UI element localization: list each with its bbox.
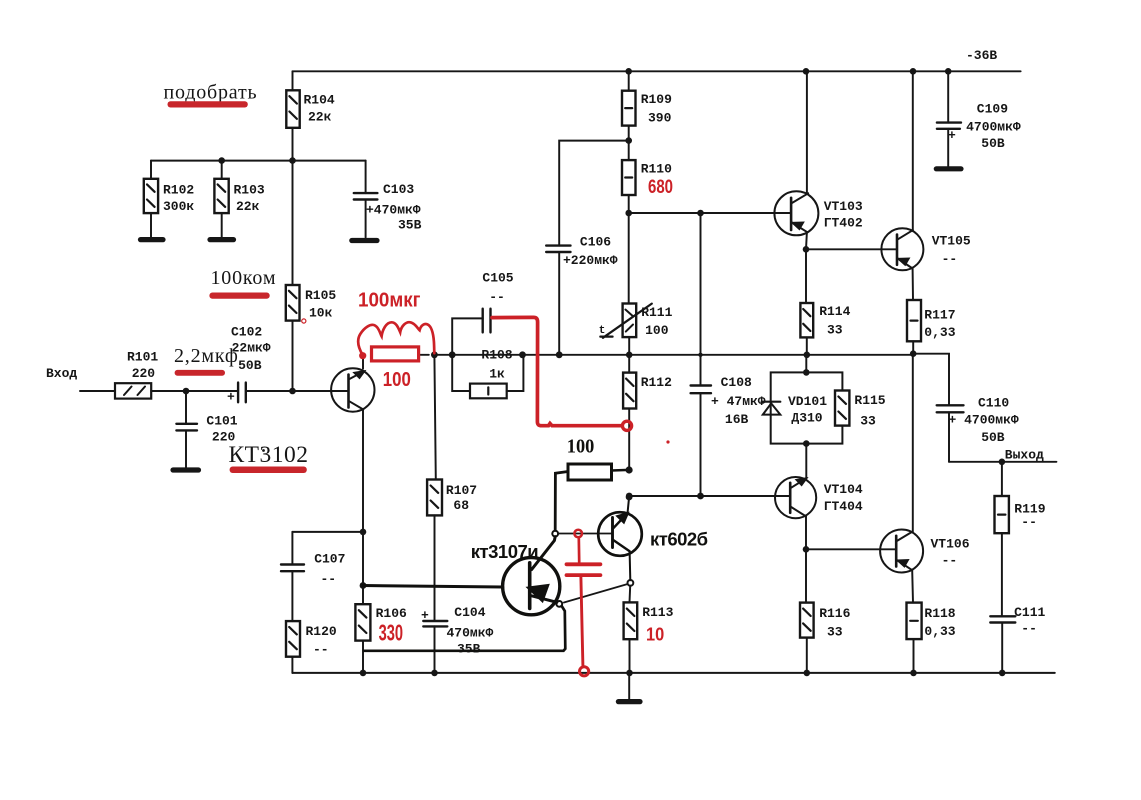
svg-text:390: 390	[648, 111, 672, 126]
svg-text:+220мкФ: +220мкФ	[563, 253, 618, 268]
svg-text:+ 47мкФ: + 47мкФ	[711, 394, 766, 409]
junction: 100-resistor right node	[626, 466, 633, 473]
resistor R106	[355, 604, 407, 673]
junction: C109 on rail	[945, 68, 952, 75]
annotation underline (подобрать)	[168, 101, 248, 107]
svg-text:R116: R116	[819, 606, 850, 621]
capacitor C107	[281, 532, 345, 621]
junction: VD101 box bottom	[803, 440, 810, 447]
svg-text:680: 680	[648, 177, 673, 198]
capacitor C104	[421, 605, 494, 673]
wire: bottom ground rail	[292, 672, 1054, 674]
junction: R110 bottom	[625, 210, 632, 217]
annotation: КТ3102	[229, 442, 309, 468]
svg-text:+470мкФ: +470мкФ	[366, 203, 421, 218]
svg-text:50В: 50В	[238, 358, 262, 373]
ground below R103	[210, 237, 234, 242]
wire: thin diagonal emitter to R113 node	[564, 584, 628, 603]
svg-text:C102: C102	[231, 325, 262, 340]
annotation: подобрать	[164, 82, 258, 104]
svg-text:16В: 16В	[725, 412, 749, 427]
resistor R114	[800, 249, 850, 354]
resistor R118	[907, 570, 956, 673]
svg-text:--: --	[489, 289, 505, 304]
svg-text:подобрать: подобрать	[164, 82, 258, 104]
resistor R115	[835, 391, 886, 429]
annotation: кт3107и label	[471, 541, 538, 562]
annotation: red capacitor at кт602б base (hand-drawn)	[567, 530, 601, 676]
svg-text:0,33: 0,33	[924, 325, 955, 340]
svg-text:0,33: 0,33	[924, 624, 955, 639]
svg-text:C111: C111	[1014, 605, 1045, 620]
resistor R109	[622, 71, 672, 160]
resistor R120	[286, 621, 337, 673]
annotation: red 10 value	[646, 625, 664, 645]
capacitor C106	[546, 141, 629, 355]
junction: R109 top on rail	[625, 68, 632, 75]
wire: R101 to C102	[151, 390, 238, 392]
wire: bias divider row	[151, 160, 366, 162]
svg-text:50В: 50В	[981, 430, 1005, 445]
wire: mid rail (R108/C106 row)	[420, 354, 913, 356]
resistor R105	[286, 161, 337, 391]
svg-text:R104: R104	[304, 93, 335, 108]
annotation: red text 100 under box	[383, 369, 411, 391]
svg-text:100: 100	[383, 369, 411, 391]
svg-text:--: --	[313, 642, 329, 657]
junction: C108 bottom on base row	[697, 493, 704, 500]
junction: C108 crossing rail	[698, 353, 702, 357]
junction: VD101 box top	[803, 369, 810, 376]
node: Выход label	[1005, 448, 1044, 463]
wire: VT105 collector to rail	[912, 71, 914, 230]
wire: C102 to VT101 base	[246, 390, 349, 392]
svg-text:220: 220	[132, 366, 156, 381]
wire: VT104 base row	[629, 495, 791, 497]
svg-text:C110: C110	[978, 395, 1009, 410]
annotation: 2,2мкф	[174, 345, 239, 367]
wire: VT106 collector up to R117 node	[912, 354, 914, 532]
transistor кт3107и (hand-drawn)	[363, 537, 562, 615]
resistor R112	[623, 373, 672, 470]
svg-text:50В: 50В	[981, 136, 1005, 151]
wire: VT104 emitter to VT106 base	[806, 548, 896, 550]
svg-text:R103: R103	[234, 182, 265, 197]
svg-text:--: --	[942, 251, 958, 266]
resistor R117	[907, 269, 956, 354]
junction: R114 bottom on rail	[804, 352, 811, 359]
transistor VT106	[880, 530, 970, 573]
ground below R102	[141, 237, 164, 242]
wire: VT101 collector up to red node	[362, 356, 364, 369]
resistor R103	[214, 161, 265, 238]
capacitor C108	[691, 213, 766, 496]
capacitor C109	[937, 71, 1021, 166]
svg-text:4700мкФ: 4700мкФ	[966, 119, 1021, 134]
junction at C101 tap	[183, 388, 190, 395]
svg-text:68: 68	[453, 498, 469, 513]
resistor R107	[427, 355, 477, 621]
svg-text:R105: R105	[305, 288, 336, 303]
svg-text:330: 330	[379, 619, 403, 645]
annotation underline (100ком)	[209, 293, 269, 299]
svg-text:1к: 1к	[489, 367, 505, 382]
svg-text:33: 33	[827, 625, 843, 640]
svg-text:470мкФ: 470мкФ	[447, 625, 494, 640]
junction: VT103 emitter node	[803, 246, 810, 253]
resistor R101	[115, 350, 158, 399]
svg-text:2,2мкф: 2,2мкф	[174, 345, 239, 367]
node: -36V label	[966, 48, 997, 63]
ground below C109	[936, 166, 961, 171]
junction VT101 emitter / C107	[360, 529, 367, 536]
capacitor C103	[354, 161, 422, 238]
svg-text:Д310: Д310	[791, 411, 822, 426]
junction at R105 bottom	[289, 388, 296, 395]
svg-text:100мкг: 100мкг	[358, 289, 421, 312]
svg-text:R102: R102	[163, 182, 194, 197]
junction: VT103 on rail	[803, 68, 810, 75]
junction: output node	[999, 459, 1006, 466]
resistor R108	[452, 347, 523, 398]
wire: VT104 emitter down	[805, 517, 807, 550]
svg-text:VT104: VT104	[824, 482, 863, 497]
annotation: red text 100мкг	[358, 289, 421, 312]
wire: output row	[949, 461, 1056, 463]
junction: R111 bottom on rail	[626, 352, 633, 359]
resistor R113	[624, 586, 674, 673]
annotation: small red ink speck	[666, 440, 669, 443]
svg-text:C105: C105	[482, 271, 513, 286]
transistor VT105	[881, 228, 971, 270]
junction: C108 branch top	[697, 210, 704, 217]
capacitor C111	[990, 605, 1045, 673]
svg-text:кт3107и: кт3107и	[471, 541, 538, 562]
svg-text:C106: C106	[580, 234, 611, 249]
svg-text:--: --	[1021, 621, 1037, 636]
svg-text:C101: C101	[206, 413, 237, 428]
svg-text:--: --	[321, 571, 337, 586]
capacitor C102	[227, 325, 271, 405]
svg-text:Вход: Вход	[46, 366, 77, 381]
svg-text:R108: R108	[481, 347, 512, 362]
thermistor R111	[599, 213, 673, 373]
junction: R106 line on bottom rail	[360, 670, 367, 677]
transistor VT101 (КТ3102)	[331, 368, 374, 411]
annotation underline (2,2мкф)	[175, 370, 225, 376]
junction: node A (R107 / red link)	[431, 351, 438, 358]
svg-text:VT105: VT105	[932, 233, 971, 248]
svg-text:-36В: -36В	[966, 48, 997, 63]
wire: VT103 emitter to VT105 base	[806, 248, 897, 250]
wire: VT101 emitter down	[362, 410, 364, 532]
junction at R104/R105	[289, 157, 296, 164]
capacitor C110	[913, 354, 1019, 462]
junction: R118 on bottom rail	[910, 670, 917, 677]
ground symbol below rail	[618, 673, 640, 702]
capacitor C101	[176, 391, 237, 468]
junction: R109/R110/C106	[625, 137, 632, 144]
resistor R110	[622, 160, 672, 213]
junction: R116 on bottom rail	[804, 670, 811, 677]
wire: VT103 emitter down	[805, 232, 808, 249]
svg-text:КТ3102: КТ3102	[229, 442, 309, 468]
svg-text:+: +	[948, 128, 956, 143]
junction: C106 on rail	[556, 351, 563, 358]
annotation: red inductor 100мкг (hand-drawn)	[358, 322, 434, 359]
capacitor C105	[452, 271, 514, 355]
svg-text:C107: C107	[314, 552, 345, 567]
svg-text:VT106: VT106	[931, 537, 970, 552]
svg-text:+: +	[227, 390, 235, 405]
wire: input lead	[80, 390, 115, 392]
transistor кт602б (hand-drawn)	[598, 497, 642, 580]
annotation: 100ком	[211, 267, 277, 289]
wire: VD101 box bottom to VT104 collector	[805, 444, 807, 478]
svg-text:+ 4700мкФ: + 4700мкФ	[949, 413, 1019, 428]
ground below C103	[352, 238, 377, 243]
svg-text:C109: C109	[977, 101, 1008, 116]
svg-text:Выход: Выход	[1005, 448, 1044, 463]
svg-text:33: 33	[827, 323, 843, 338]
node ring at R113 top	[628, 580, 634, 586]
svg-text:300к: 300к	[163, 199, 194, 214]
svg-text:VT103: VT103	[824, 199, 863, 214]
svg-text:22к: 22к	[308, 109, 332, 124]
junction: R108 right on rail	[519, 351, 526, 358]
junction: C104 on bottom rail	[431, 670, 438, 677]
svg-text:ГТ402: ГТ402	[824, 216, 863, 231]
wire: VT103 collector to rail	[806, 71, 808, 194]
resistor R119	[995, 462, 1046, 617]
svg-text:R114: R114	[819, 304, 850, 319]
svg-text:35В: 35В	[457, 642, 481, 657]
junction at R103 top	[218, 157, 225, 164]
svg-text:C108: C108	[721, 375, 752, 390]
wire: link ring to кт602б base	[558, 533, 612, 535]
annotation underline (КТ3102)	[230, 467, 307, 474]
svg-text:R112: R112	[641, 375, 672, 390]
junction: C111 on bottom rail	[999, 670, 1006, 677]
diode VD101 box	[771, 355, 843, 444]
svg-text:кт602б: кт602б	[650, 529, 708, 550]
annotation: кт602б label	[650, 529, 708, 550]
junction: node B (C105/R108 tap)	[449, 351, 456, 358]
svg-text:C104: C104	[454, 605, 485, 620]
annotation: red jumper wire C105 to R112 bottom (hand-drawn)	[492, 317, 632, 430]
svg-text:ГТ404: ГТ404	[824, 499, 863, 514]
resistor 100 (hand-drawn add-on)	[552, 464, 625, 536]
annotation: red 330 value	[379, 619, 403, 645]
junction: VT104 emitter node	[803, 546, 810, 553]
junction: R117 bottom	[910, 350, 917, 357]
wire: C107 row	[292, 531, 363, 533]
node: Вход label	[46, 366, 77, 381]
junction: R112 bottom node on base row	[626, 493, 633, 500]
svg-text:35В: 35В	[398, 218, 422, 233]
svg-text:10: 10	[646, 625, 664, 645]
svg-text:R109: R109	[641, 92, 672, 107]
svg-text:R111: R111	[641, 305, 672, 320]
svg-text:R110: R110	[641, 161, 672, 176]
wire: top -36V supply rail	[293, 70, 1021, 72]
svg-text:100ком: 100ком	[211, 267, 277, 289]
diode VD101 symbol	[762, 402, 781, 415]
resistor R116	[800, 549, 851, 673]
annotation: red 680 value	[648, 177, 673, 198]
svg-text:R117: R117	[924, 307, 955, 322]
svg-text:R101: R101	[127, 350, 158, 365]
svg-text:t: t	[599, 325, 606, 337]
svg-text:33: 33	[860, 413, 876, 428]
annotation: small red circle at R105 bottom	[302, 319, 306, 323]
junction: R113/ground on bottom rail	[626, 670, 633, 677]
svg-text:C103: C103	[383, 182, 414, 197]
svg-text:R120: R120	[306, 624, 337, 639]
svg-text:R118: R118	[924, 606, 955, 621]
annotation: red resistor box 100 (hand-drawn)	[372, 347, 419, 361]
svg-text:100: 100	[567, 437, 595, 458]
svg-text:--: --	[942, 553, 958, 568]
wire: VT101 emitter down to R106	[362, 532, 364, 604]
transistor VT104	[775, 477, 863, 518]
svg-text:--: --	[1021, 514, 1037, 529]
svg-text:+: +	[421, 608, 429, 623]
svg-text:R107: R107	[446, 483, 477, 498]
junction: кт602б collector node	[626, 494, 633, 501]
resistor R104	[286, 71, 335, 160]
svg-text:R113: R113	[642, 605, 673, 620]
wire: R110 to VT103 base	[629, 212, 791, 214]
svg-text:R115: R115	[854, 393, 885, 408]
svg-text:22к: 22к	[236, 199, 260, 214]
annotation: black 100 value	[567, 437, 595, 458]
junction: VT105 on rail	[910, 68, 917, 75]
transistor VT103	[774, 191, 863, 235]
wire: кт3107и emitter down and left (hand-drawn)	[364, 606, 565, 651]
svg-text:VD101: VD101	[788, 394, 827, 409]
junction: кт3107и base tap	[360, 582, 367, 589]
svg-text:10к: 10к	[309, 306, 333, 321]
ground below C101	[173, 467, 199, 472]
resistor R102	[144, 161, 195, 238]
svg-text:100: 100	[645, 323, 669, 338]
